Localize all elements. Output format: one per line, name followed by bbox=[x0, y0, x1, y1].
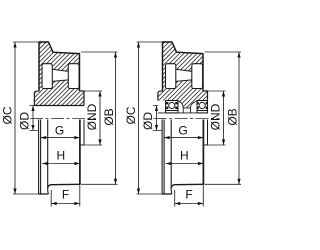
wheel left: lower view flange inner face bbox=[48, 120, 49, 194]
wheel right: web upper plate fill bbox=[175, 63, 194, 71]
wheel right: lower view flange inner face bbox=[171, 120, 172, 194]
wheel right: lower view right face bbox=[202, 120, 204, 185]
svg-text:F: F bbox=[62, 188, 69, 202]
wheel left: lower view fillet and rim bottom edge bbox=[48, 184, 80, 187]
wheel left: hub outline bbox=[34, 91, 84, 106]
wheel right: web plate gap lines bbox=[176, 69, 192, 81]
wheel left: web plate gap lines bbox=[52, 69, 68, 81]
ball bearing left (right figure): race box bbox=[166, 101, 179, 111]
wheel right: shaft bore line through hub bbox=[158, 112, 208, 114]
wheel left: lower view right face bbox=[79, 120, 81, 185]
svg-text:ØB: ØB bbox=[226, 108, 240, 125]
dimension line H (left figure) bbox=[42, 163, 80, 165]
wheel right: outer profile outline bbox=[163, 42, 204, 91]
wheel left: rim and flange section fill bbox=[39, 42, 80, 64]
wheel right: left air pocket bbox=[166, 64, 176, 89]
wheel right: spacer gap between inner rings bbox=[183, 108, 190, 113]
ball bearing right (right figure): race hatch marks bbox=[198, 103, 208, 108]
dimension line ØC (left figure) bbox=[14, 42, 16, 194]
wheel right: lower view flange bottom edge bbox=[162, 193, 172, 195]
wheel right: lower view hub collar right face bbox=[203, 120, 207, 146]
wheel right: flange inner strip fill bbox=[163, 63, 167, 91]
dimension line G (left figure) bbox=[41, 137, 80, 139]
centerline (axis) right figure bbox=[154, 117, 220, 119]
wheel right: hub outline bbox=[158, 91, 208, 101]
svg-text:ØC: ØC bbox=[124, 106, 138, 124]
wheel left: lower view hub collar right face bbox=[80, 120, 84, 146]
ball bearing right (right figure): race box bbox=[197, 101, 208, 111]
ball bearing right (right figure): ball bbox=[199, 102, 205, 108]
dimension line H (right figure) bbox=[166, 163, 204, 165]
dimension line ØC (right figure) bbox=[138, 42, 140, 194]
dimension line ØD (right figure) bbox=[156, 106, 158, 131]
wheel right: lower view flange chamfer line bbox=[163, 120, 165, 195]
dimension line F (left figure) bbox=[51, 203, 80, 205]
svg-text:ØC: ØC bbox=[1, 106, 15, 124]
wheel left: right air pocket bbox=[68, 64, 79, 89]
dimension line ØD (left figure) bbox=[32, 106, 34, 131]
wheel right: web lower plate fill bbox=[175, 80, 194, 89]
wheel left: lower view flange outer face bbox=[38, 120, 40, 195]
wheel left: lower view flange chamfer line bbox=[40, 120, 42, 195]
svg-text:F: F bbox=[185, 188, 192, 202]
svg-text:ØD: ØD bbox=[141, 112, 155, 130]
svg-text:H: H bbox=[56, 149, 65, 163]
wheel right: rim and flange section fill bbox=[163, 42, 204, 64]
wheel right: hub section fill bbox=[158, 88, 208, 100]
wheel right: hub centre rib outline bbox=[178, 100, 197, 108]
svg-text:ØND: ØND bbox=[85, 103, 99, 130]
svg-text:ØND: ØND bbox=[209, 103, 223, 130]
wheel right: lower view flange outer face bbox=[161, 120, 163, 195]
wheel right: lower view fillet and rim bottom edge bbox=[171, 184, 203, 187]
svg-text:G: G bbox=[55, 124, 64, 138]
wheel left: web lower plate fill bbox=[51, 80, 70, 89]
dimension line ØND (right figure) bbox=[223, 91, 225, 145]
wheel left: web upper plate fill bbox=[51, 63, 70, 71]
wheel left: flange inner strip fill bbox=[39, 63, 43, 91]
svg-text:H: H bbox=[180, 149, 189, 163]
ball bearing left (right figure): race hatch marks bbox=[166, 103, 178, 108]
svg-text:ØD: ØD bbox=[18, 112, 32, 130]
dimension line G (right figure) bbox=[164, 137, 203, 139]
svg-text:ØB: ØB bbox=[102, 108, 116, 125]
wheel left: left air pocket bbox=[42, 64, 52, 89]
wheel left: hub section fill bbox=[34, 88, 84, 105]
wheel left: lower view flange bottom edge bbox=[39, 193, 49, 195]
dimension line F (right figure) bbox=[175, 203, 204, 205]
dimension line ØB (right figure) bbox=[238, 52, 240, 184]
wheel right: right air pocket bbox=[192, 64, 203, 89]
ball bearing left (right figure): ball bbox=[169, 102, 175, 108]
wheel left: outer profile outline bbox=[39, 42, 80, 91]
svg-text:G: G bbox=[178, 124, 187, 138]
wheel right: hub centre rib between bearings fill bbox=[178, 100, 197, 108]
dimension line ØND (left figure) bbox=[99, 91, 101, 145]
wheel left: bore surface line bbox=[34, 105, 84, 107]
centerline (axis) left figure bbox=[30, 117, 96, 119]
dimension line ØB (left figure) bbox=[115, 52, 117, 184]
wheel right: bearing inner ring bore lines bbox=[166, 111, 208, 113]
